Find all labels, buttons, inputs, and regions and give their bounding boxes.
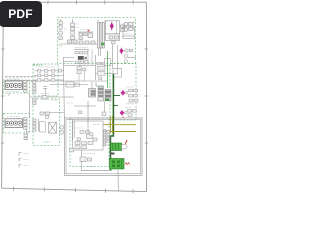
small box right mid — [113, 68, 122, 77]
wire vertical x63.5 long — [63, 57, 66, 118]
small parts left-low of U2 — [79, 111, 82, 114]
transformer T1 — [98, 23, 105, 49]
relay coil bracket mid-left — [40, 122, 46, 132]
small parts between connectors — [33, 99, 37, 105]
green connector CN2 — [110, 159, 125, 170]
green dashed box: filter section left — [33, 64, 58, 96]
components: top-center cluster (bridge area) — [68, 33, 96, 44]
wire down to border from connector — [117, 170, 119, 191]
pin fan right of box B — [106, 131, 112, 145]
green dashed box: control section mid — [33, 99, 59, 146]
wire transformer bottom stubs — [97, 48, 99, 56]
resistor array right of J2 — [24, 118, 37, 140]
dark IC chip U1 body — [78, 56, 84, 59]
left filter row wires — [34, 71, 64, 80]
text smudge rows (labels) — [5, 77, 36, 81]
label mark between connectors — [110, 153, 115, 155]
green dashed box: right secondary section — [110, 64, 136, 121]
wire stubs M2 — [122, 50, 127, 52]
wires from mid vertical to U1 — [64, 58, 75, 62]
resistor array right of J1 — [24, 81, 37, 94]
capacitor C mid-left — [43, 87, 47, 97]
wire below connector2 — [26, 128, 28, 140]
medium green wire vertical — [107, 51, 109, 88]
diode D4 magenta — [120, 110, 124, 115]
wire long bottom rail — [82, 170, 113, 172]
green dashed box: output section bottom — [70, 118, 109, 167]
wires (gray) — [9, 19, 136, 191]
red zigzag right of CN2 — [125, 163, 130, 165]
components: top-left chain 1 (varistor stack) — [59, 21, 63, 40]
green dashed box: input connector J1 area — [3, 80, 29, 93]
wire main rail y81 — [30, 80, 107, 82]
connector J2 (4-pin) — [5, 119, 22, 128]
bottom big box B (control board) — [73, 121, 104, 150]
wire mid rail y50 — [74, 49, 89, 51]
green connector CN1 with plug arrow — [111, 143, 128, 151]
wire loop right of rectifier — [123, 27, 135, 39]
wire y84.5 — [50, 84, 88, 86]
wire y106 — [74, 105, 96, 107]
wire vertical x29.7 between connectors — [29, 93, 31, 118]
mid components between sections — [40, 82, 74, 119]
small box above bus start — [105, 59, 111, 66]
wire y73.5 secondary — [95, 73, 117, 75]
inner sub-circuit double box — [65, 118, 143, 175]
small part inside inner box left — [70, 149, 74, 152]
dark green bus thick — [110, 74, 113, 170]
wire transformer top — [97, 20, 99, 23]
legend marks bottom-left — [19, 153, 22, 168]
diode D3 magenta — [121, 90, 125, 95]
short vertical wires in U1 area — [79, 50, 92, 81]
components below box B — [80, 157, 92, 162]
wire vertical x95.5 — [95, 55, 97, 80]
border zone tick marks — [1, 0, 148, 193]
olive feedback lines — [103, 116, 136, 133]
green mark at T1 bottom — [102, 43, 105, 45]
PDF badge — [0, 1, 42, 27]
wire AC rail top — [59, 43, 98, 45]
components inside box B — [74, 121, 97, 149]
wire verticals under top-right box — [112, 41, 114, 69]
wire down from U2 and part — [104, 101, 106, 112]
red mark top-center — [88, 30, 90, 32]
wire stubs at M1 — [104, 20, 108, 22]
sheet border frame — [2, 2, 147, 191]
green stubs to diodes — [113, 96, 120, 106]
wire vertical x88 to box — [87, 101, 89, 121]
mid IC cluster U1 — [75, 51, 105, 79]
connector J1 (4-pin) — [5, 81, 22, 90]
left filter rows (resistor/cap rows) — [38, 70, 62, 82]
wire vertical x72.8 — [72, 119, 74, 140]
wire chain top — [60, 19, 62, 21]
green dashes along top of D1 box (text) — [44, 46, 104, 142]
transistor Q near D2 — [118, 45, 133, 75]
wire mid rail y65 — [64, 65, 96, 67]
transistors Q3 Q4 — [60, 125, 64, 134]
wire top cluster — [78, 31, 93, 33]
wire stubs down from rail into U2 zone — [91, 82, 93, 89]
wire y97 — [30, 96, 74, 98]
inner divider of rectifier box — [116, 21, 118, 34]
mid right: diode D2 magenta — [120, 48, 124, 55]
red mark top of olive — [122, 117, 125, 119]
components: top chain 2 (fuse / inductor) — [71, 23, 75, 39]
green dashed box: connector J2 area — [3, 114, 29, 134]
wire y112.5 — [40, 112, 64, 114]
component cluster right of D3 — [128, 89, 139, 116]
green label text left — [34, 64, 44, 66]
green dashed box: primary power section — [58, 18, 136, 64]
top right box pair around D1 rectifier — [106, 21, 134, 41]
wire into box B — [87, 121, 89, 133]
wire box B down — [81, 150, 83, 171]
IC U2 cluster mid right — [89, 87, 112, 102]
wire vertical x38.5 — [38, 119, 40, 131]
red flag above CN1 — [126, 140, 127, 144]
rectifier diode D1 (magenta) — [110, 22, 114, 31]
tiny label text smudges — [7, 24, 134, 167]
transformer T2 small box with X — [49, 122, 57, 133]
